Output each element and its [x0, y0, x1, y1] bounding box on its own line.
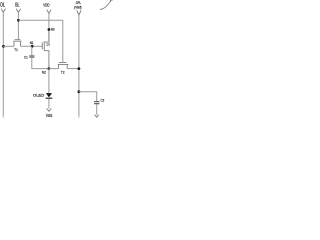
svg-text:P: P: [110, 0, 113, 3]
node dot N3: [48, 28, 51, 31]
capacitor C2: [94, 102, 99, 115]
wire GL gate line down to T1 gate: [17, 13, 19, 40]
node dot DL-T1 junction: [2, 45, 5, 48]
node dot GL branch junction: [17, 19, 20, 22]
wire CPL branch to C2: [79, 92, 97, 102]
svg-text:N2: N2: [42, 70, 46, 74]
wire CPL line full height: [78, 15, 80, 116]
svg-text:VDD: VDD: [43, 3, 49, 9]
capacitor C1: [29, 46, 49, 68]
terminal arrow VSS: [47, 108, 52, 111]
transistor T1: [13, 40, 21, 47]
pointer P leader arc: [101, 2, 110, 10]
wire GL branch to T2 gate: [18, 20, 62, 62]
svg-text:DT: DT: [47, 43, 51, 47]
terminal arrow C2 ground: [95, 115, 99, 118]
terminal arrow GL: [16, 9, 20, 13]
node dot CPL-C2 junction: [78, 90, 81, 93]
wire DL data line: [2, 12, 4, 116]
svg-text:GL: GL: [15, 3, 20, 9]
svg-text:T1: T1: [14, 48, 17, 52]
terminal arrow VDD: [47, 10, 51, 14]
diode OLED: [46, 93, 53, 98]
wire N2 to T2 source: [49, 68, 59, 70]
terminal arrow CPL: [77, 11, 81, 16]
wire T2 drain to CPL: [67, 68, 79, 70]
svg-text:N3: N3: [51, 28, 55, 32]
svg-text:(Vref): (Vref): [74, 4, 82, 9]
node dot N1: [31, 45, 34, 48]
transistor T2: [58, 63, 69, 69]
svg-text:T2: T2: [61, 71, 65, 75]
svg-text:C2: C2: [101, 98, 105, 102]
wire VDD line down to DT drain: [44, 13, 49, 42]
node dot N2: [48, 67, 51, 70]
wire OLED cathode to VSS: [48, 99, 50, 109]
terminal arrow DL: [1, 9, 5, 13]
svg-text:N1: N1: [30, 41, 34, 45]
node dot T2-CPL junction: [78, 67, 81, 70]
svg-text:DL: DL: [0, 3, 5, 9]
svg-text:C1: C1: [24, 56, 28, 60]
wire T1 drain to N1 to DT gate: [21, 45, 43, 47]
svg-text:OLED: OLED: [33, 92, 44, 97]
wire DL to T1 source: [3, 45, 14, 47]
wire N2 down to OLED: [48, 69, 50, 94]
svg-text:VSS: VSS: [46, 113, 53, 118]
transistor DT: [42, 31, 49, 69]
